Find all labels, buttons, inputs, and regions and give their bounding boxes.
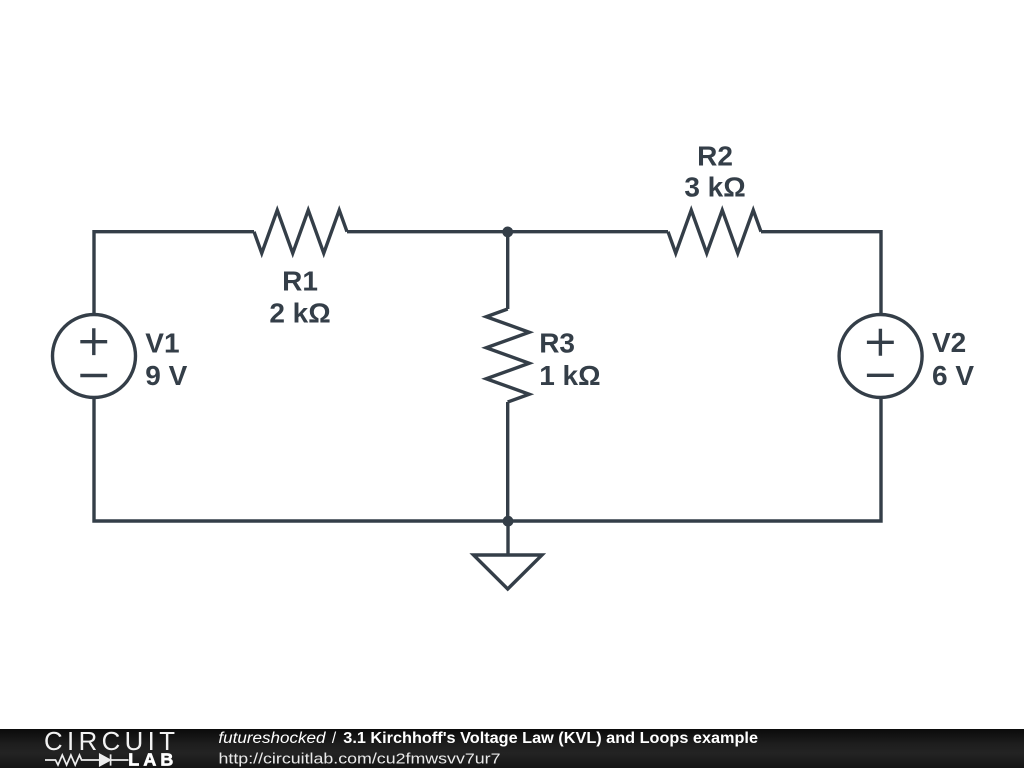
wire R3 bottom lead <box>506 402 509 521</box>
node junction top <box>502 227 513 238</box>
wire V1 top lead and top-left corner <box>94 232 254 315</box>
wire R3 top lead <box>506 232 509 309</box>
wire R1 to R2 through top node <box>347 230 668 233</box>
svg-text:http://circuitlab.com/cu2fmwsv: http://circuitlab.com/cu2fmwsvv7ur7 <box>219 750 501 767</box>
svg-text:LAB: LAB <box>128 750 177 768</box>
ground <box>474 555 543 589</box>
svg-text:6 V: 6 V <box>932 360 974 391</box>
resistor R3 <box>486 309 529 402</box>
wire R2 to top-right corner and V2 top lead <box>761 232 881 315</box>
voltage source V2 <box>839 315 922 398</box>
ground stub wire <box>506 521 509 555</box>
svg-text:V1: V1 <box>145 327 179 358</box>
svg-text:R3: R3 <box>539 328 575 359</box>
voltage source V1 <box>53 315 136 398</box>
svg-text:V2: V2 <box>932 327 966 358</box>
svg-text:9 V: 9 V <box>145 360 187 391</box>
node junction bottom <box>503 516 514 527</box>
logo resistor-diode symbol <box>45 754 129 765</box>
svg-text:R2: R2 <box>697 141 733 172</box>
svg-text:/: / <box>332 730 337 747</box>
resistor R2 <box>668 210 761 253</box>
resistor R1 <box>254 210 347 253</box>
svg-text:2 kΩ: 2 kΩ <box>269 298 330 329</box>
wire bottom rail with V1 and V2 bottom leads <box>94 398 881 522</box>
svg-text:3 kΩ: 3 kΩ <box>684 172 745 203</box>
footer bar <box>0 729 1024 768</box>
svg-text:futureshocked: futureshocked <box>218 730 327 747</box>
svg-text:1 kΩ: 1 kΩ <box>539 360 600 391</box>
svg-text:R1: R1 <box>282 266 318 297</box>
svg-text:3.1 Kirchhoff's Voltage Law (K: 3.1 Kirchhoff's Voltage Law (KVL) and Lo… <box>343 730 758 747</box>
